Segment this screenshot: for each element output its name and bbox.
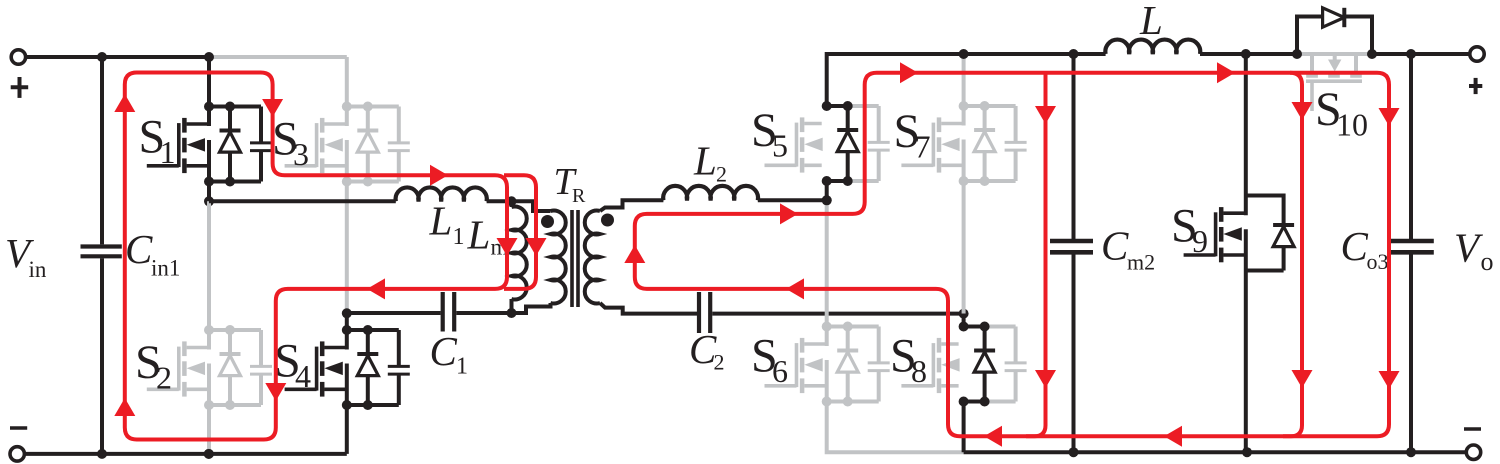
svg-text:1: 1	[160, 134, 176, 170]
wire: top rail gray segment to S3	[209, 55, 347, 59]
red arrow right (top rail 1)	[900, 62, 918, 83]
node: left bridge midpoint A (S1/S2)	[204, 196, 214, 206]
node: Cm2 top junction	[1069, 49, 1079, 59]
red arrow left (primary return)	[367, 278, 385, 299]
S4 leg to bottom rail	[345, 405, 349, 454]
S2 cell top rail	[209, 328, 261, 332]
plus sign (output)	[1469, 84, 1482, 88]
S4 leg from midpoint	[345, 313, 349, 330]
transistor S10 (gray MOSFET, rotated)	[1310, 54, 1314, 74]
svg-text:6: 6	[772, 353, 788, 389]
svg-text:in1: in1	[151, 256, 180, 281]
node: S7 leg top junction	[959, 49, 969, 59]
red arrow left (bottom return 1)	[984, 426, 1002, 447]
S8 parallel capacitor	[1014, 327, 1018, 362]
svg-text:C: C	[1341, 223, 1369, 269]
S6 leg gray to bottom rail	[827, 402, 964, 453]
node: S2 leg bottom junction	[204, 449, 214, 459]
S7 drain leg segment	[962, 104, 966, 126]
S3 parallel capacitor	[397, 107, 401, 142]
S3 source leg segment	[345, 140, 349, 184]
S4 cell top rail	[347, 328, 399, 332]
capacitor Co3	[1409, 54, 1413, 239]
S7 leg gray to midpoint	[962, 181, 966, 314]
S2 leg gray from midpoint	[207, 201, 211, 330]
node: Co3 top junction	[1406, 49, 1416, 59]
svg-text:2: 2	[714, 349, 725, 374]
S6 cell bottom rail	[827, 400, 879, 404]
S1 cell bottom rail	[209, 180, 261, 184]
red arrow down (S10 branch bottom)	[1292, 370, 1313, 388]
capacitor C2 (series)	[697, 292, 701, 333]
svg-text:L: L	[467, 211, 491, 257]
switch cell S8: MOSFET	[901, 384, 933, 388]
transformer TR primary winding	[512, 201, 551, 211]
node: S1 leg top junction	[204, 52, 214, 62]
S5 body diode	[846, 106, 850, 130]
switch cell S1: MOSFET	[147, 164, 179, 168]
S4 parallel capacitor	[397, 330, 401, 365]
node: D10 right junction	[1367, 49, 1377, 59]
wire: midpoint A to L1	[209, 199, 396, 203]
S1 source leg segment	[207, 140, 211, 184]
input terminal - (bottom left)	[10, 447, 24, 461]
svg-text:L: L	[429, 198, 453, 244]
node: left bridge midpoint B (S3/S4)	[342, 308, 352, 318]
node: transformer primary bottom	[507, 308, 517, 318]
svg-text:o3: o3	[1367, 249, 1389, 274]
S3 drain leg segment	[345, 105, 349, 127]
red arrow down (Cm2 branch bottom)	[1035, 370, 1056, 388]
S7 cell junction dots	[959, 101, 969, 111]
S3 body diode	[366, 107, 370, 131]
svg-text:m2: m2	[1127, 250, 1155, 275]
node: S9 source bottom junction	[1242, 447, 1252, 457]
red arrow right (to L1)	[430, 165, 448, 186]
inductor L (output filter)	[1105, 40, 1200, 54]
svg-text:5: 5	[772, 128, 788, 164]
node: D10 left junction	[1292, 49, 1302, 59]
node: Cin1 bottom junction	[97, 449, 107, 459]
svg-text:4: 4	[295, 358, 311, 394]
red arrow up (input side)	[114, 94, 135, 112]
S7 cell bottom rail	[964, 179, 1016, 183]
red arrow right (top rail 2)	[1217, 62, 1235, 83]
S7 parallel capacitor	[1014, 106, 1018, 141]
svg-text:C: C	[125, 226, 153, 272]
switch cell S6: MOSFET	[765, 384, 797, 388]
wire: bottom left rail	[24, 452, 346, 456]
node: Cm2 bottom junction	[1069, 447, 1079, 457]
wire: red primary inner branch (through Lm)	[504, 175, 536, 289]
svg-text:C: C	[1101, 222, 1129, 268]
node: right bridge midpoint B (S7/S8)	[959, 309, 969, 319]
inductor L1	[396, 187, 487, 201]
switch cell S3: MOSFET	[285, 164, 317, 168]
svg-text:L: L	[693, 137, 717, 183]
S2 body diode	[228, 330, 232, 354]
svg-text:7: 7	[915, 129, 931, 165]
S4 cell junction dots	[342, 325, 352, 335]
S3 cell junction dots	[342, 102, 352, 112]
svg-text:V: V	[1454, 225, 1483, 271]
wire: red branch into Cm2	[1026, 73, 1046, 437]
red arrow down (Co3 branch bottom)	[1379, 371, 1400, 389]
S6 cell top rail	[827, 325, 879, 329]
node: transformer primary top	[507, 196, 517, 206]
wire: bottom right rail	[964, 450, 1467, 454]
wire: top left rail (black)	[26, 55, 209, 59]
red arrow down (Cm2 branch top)	[1035, 106, 1056, 124]
wire: top right rail L to S10	[1200, 52, 1297, 56]
S5 parallel capacitor	[877, 106, 881, 141]
red arrow down (primary branch)	[526, 238, 547, 256]
S9 diode loop bottom wire	[1246, 269, 1284, 273]
minus sign (input)	[10, 426, 27, 430]
switch cell S5: MOSFET	[765, 164, 797, 168]
svg-text:L: L	[1139, 0, 1163, 43]
output terminal - (bottom right)	[1466, 445, 1480, 459]
capacitor C1 (series)	[347, 311, 441, 315]
svg-text:C: C	[430, 328, 458, 374]
svg-text:R: R	[572, 185, 586, 207]
red arrow down (Lm branch)	[497, 238, 518, 256]
svg-text:8: 8	[911, 353, 927, 389]
S6 drain leg segment	[825, 325, 829, 347]
input terminal + (top left)	[11, 50, 25, 64]
wire: red branch at S10/Co3 left	[1283, 73, 1302, 437]
S6 parallel capacitor	[877, 327, 881, 362]
S5 leg from top rail	[825, 52, 829, 106]
S1 drain leg segment	[207, 105, 211, 127]
wire: top right rail S10 to terminal	[1372, 52, 1470, 56]
red arrow up (secondary)	[624, 245, 645, 263]
svg-text:2: 2	[716, 161, 727, 186]
node: S2 bottom junction redraw	[204, 449, 214, 459]
S6 leg gray from midpoint	[825, 200, 829, 326]
red arrow down (Co3 branch top)	[1379, 108, 1400, 126]
S1 leg to midpoint	[207, 182, 211, 202]
switch cell S2: MOSFET	[147, 387, 179, 391]
S8 cell top rail	[964, 325, 985, 329]
S6 source leg segment	[825, 360, 829, 404]
transformer primary polarity dot	[541, 215, 554, 228]
S3 cell top rail	[347, 105, 399, 109]
S8 cell junction dots	[959, 322, 969, 332]
svg-text:1: 1	[453, 224, 465, 250]
node: S9 drain junction	[1241, 49, 1251, 59]
svg-text:o: o	[1481, 247, 1494, 276]
red arrow left (secondary return)	[786, 278, 804, 299]
inductor L2	[663, 186, 758, 200]
svg-text:10: 10	[1336, 106, 1368, 142]
capacitor Cm2	[1072, 54, 1076, 239]
svg-text:9: 9	[1192, 223, 1208, 259]
S2 source leg segment	[207, 364, 211, 408]
S3 leg gray from top rail	[345, 57, 349, 107]
S7 leg gray from top rail	[962, 54, 966, 106]
S5 leg to midpoint	[825, 181, 829, 200]
inductor Lm (magnetizing)	[510, 201, 514, 207]
S2 leg gray to bottom rail	[207, 405, 211, 454]
S2 cell bottom rail	[209, 403, 261, 407]
S8 body diode	[983, 327, 987, 351]
node: Cin1 top junction	[97, 52, 107, 62]
S2 drain leg segment	[207, 328, 211, 350]
transformer secondary polarity dot	[601, 214, 614, 227]
wire: top right rail (to L)	[827, 52, 1106, 56]
S4 drain leg segment	[345, 328, 349, 350]
S4 cell bottom rail	[347, 403, 399, 407]
switch cell S4: MOSFET	[285, 387, 317, 391]
red arrow down (S4 path)	[265, 383, 286, 401]
S8 leg from midpoint	[962, 314, 966, 327]
wire: red primary current loop	[125, 73, 507, 440]
S1 cell junction dots	[204, 102, 214, 112]
red arrow right (secondary top)	[780, 203, 798, 224]
node: Co3 bottom junction	[1406, 447, 1416, 457]
S5 cell junction dots	[822, 101, 832, 111]
wire: L1 to transformer	[487, 199, 512, 203]
capacitor Cin1	[100, 57, 104, 244]
S7 cell top rail	[964, 104, 1016, 108]
plus sign (input)	[11, 85, 29, 89]
S6 cell junction dots	[822, 322, 832, 332]
red arrow down (S10 branch top)	[1292, 102, 1313, 120]
transistor S9 (MOSFET)	[1244, 54, 1248, 215]
S1 cell top rail	[209, 105, 261, 109]
S3 cell bottom rail	[347, 180, 399, 184]
S5 cell top rail	[827, 104, 848, 108]
S2 cell junction dots	[204, 325, 214, 335]
transformer TR secondary winding	[585, 211, 600, 304]
node: right bridge midpoint A (S5/S6)	[822, 195, 832, 205]
S1 body diode	[228, 107, 232, 131]
switch cell S7: MOSFET	[901, 164, 933, 168]
S6 body diode	[846, 327, 850, 351]
node: right bridge midpoint A redraw	[822, 195, 832, 205]
wire: red secondary current loop	[635, 73, 1389, 437]
svg-text:in: in	[29, 257, 47, 282]
output terminal + (top right)	[1470, 47, 1484, 61]
svg-text:2: 2	[156, 360, 172, 396]
minus sign (output)	[1464, 427, 1481, 431]
S1 leg from top rail	[207, 57, 211, 107]
red arrow up (input bottom)	[114, 398, 135, 416]
S4 body diode	[366, 330, 370, 354]
S5 cell bottom rail	[827, 179, 848, 183]
S7 body diode	[983, 106, 987, 130]
red arrow down (S3 path)	[262, 99, 283, 117]
diode D10 (bypass over S10)	[1297, 17, 1323, 55]
S1 parallel capacitor	[259, 107, 263, 142]
red arrow left (bottom return 2)	[1164, 426, 1182, 447]
S9 diode loop top wire	[1246, 194, 1284, 198]
transformer TR core	[570, 210, 574, 307]
S3 leg gray to midpoint B	[345, 182, 349, 314]
svg-text:1: 1	[456, 353, 468, 379]
S8 cell bottom rail	[964, 400, 985, 404]
wire: L2 to right bridge	[758, 198, 827, 202]
S7 source leg segment	[962, 140, 966, 184]
svg-text:3: 3	[293, 136, 309, 172]
wire: S10 source/drain gray path	[1297, 52, 1372, 56]
S8 leg to bottom rail	[962, 402, 966, 453]
S4 source leg segment	[345, 364, 349, 408]
S2 parallel capacitor	[259, 330, 263, 365]
S9 body diode	[1282, 194, 1286, 226]
